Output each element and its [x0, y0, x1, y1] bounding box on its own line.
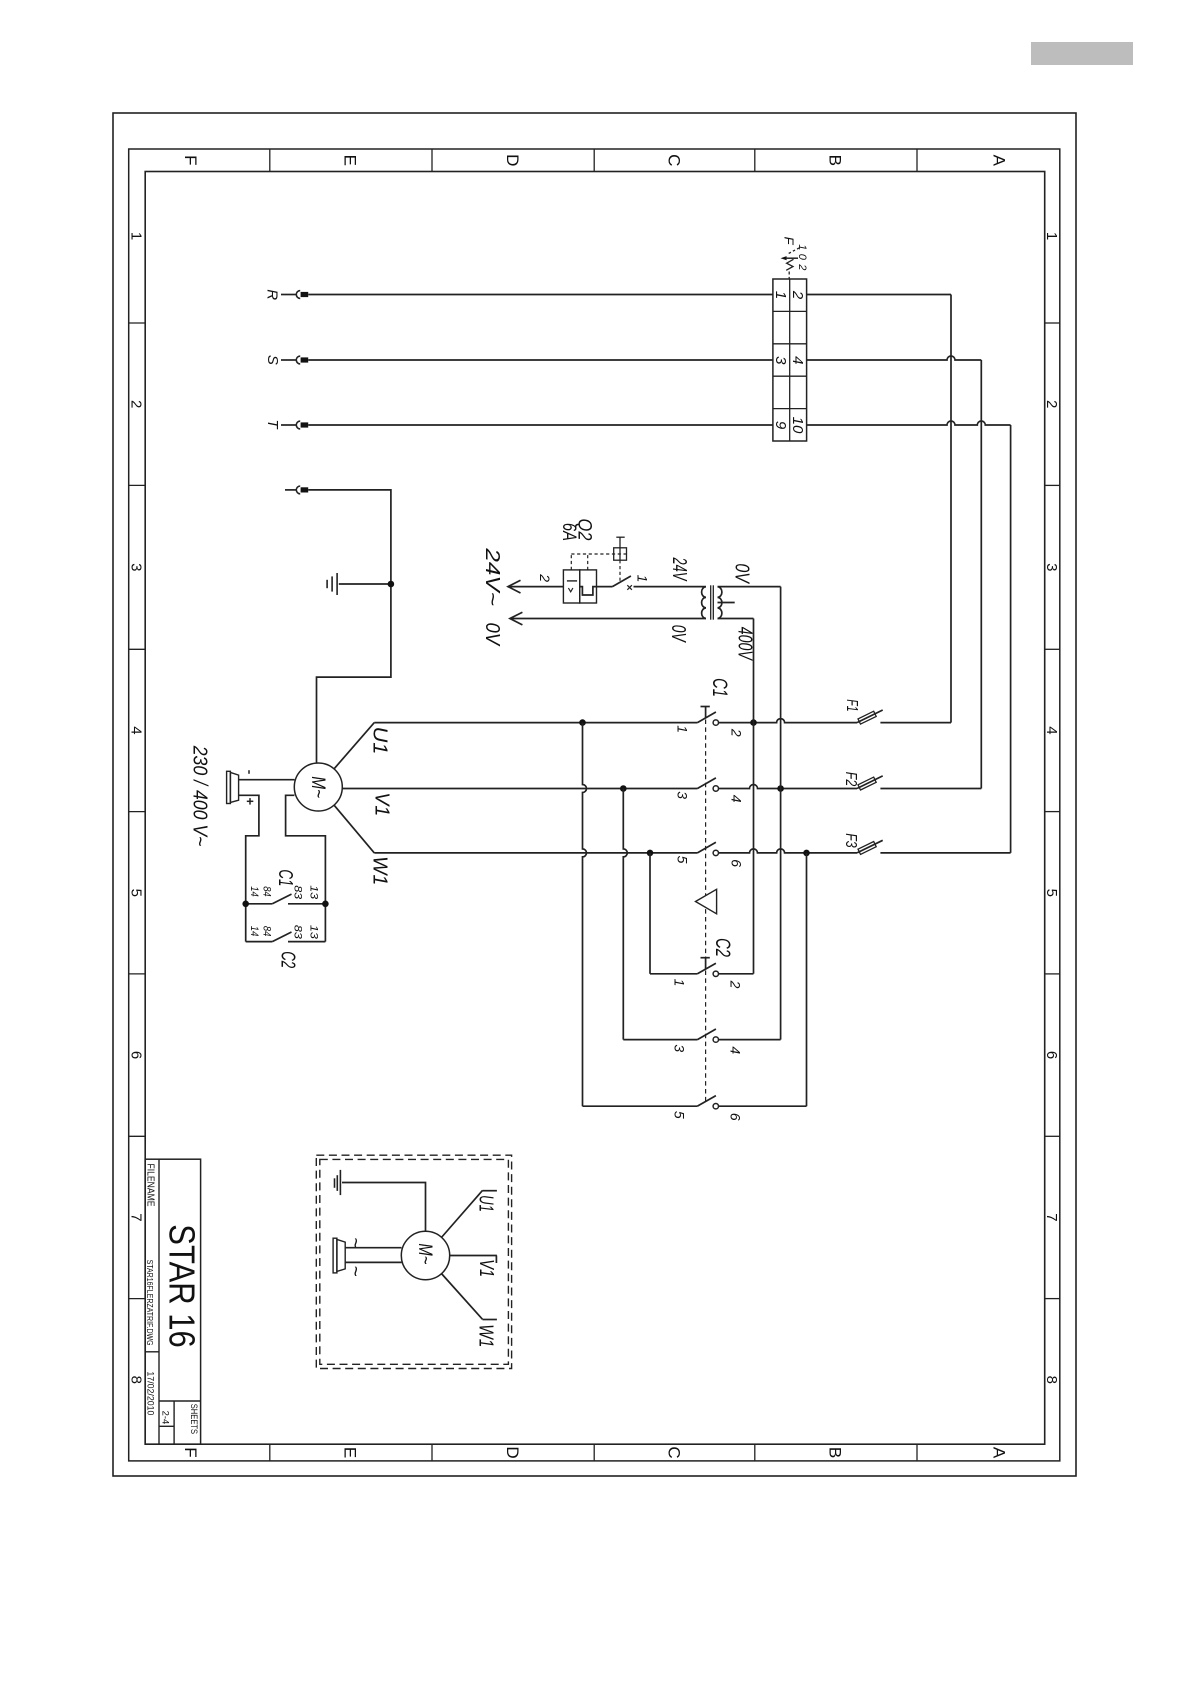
wire drop W1-row to C2 pole1 — [649, 853, 651, 974]
svg-text:6: 6 — [728, 1113, 744, 1121]
wire C1 pole2 to fuse F1 — [719, 719, 857, 723]
inset wire top phase — [345, 1247, 401, 1249]
svg-text:13: 13 — [308, 925, 320, 940]
svg-text:8: 8 — [1043, 1376, 1060, 1384]
title block frame — [145, 1159, 200, 1444]
Q2 test button square — [614, 548, 627, 560]
svg-text:5: 5 — [674, 856, 690, 864]
wire transformer 400V right — [718, 618, 754, 620]
wire C2 pole4 up corner — [719, 1039, 781, 1041]
wire plus to aux left rail — [239, 795, 259, 941]
wire U1 row to C1 pole 1 — [374, 722, 697, 724]
svg-text:FILENAME: FILENAME — [145, 1164, 156, 1207]
svg-text:14: 14 — [248, 886, 260, 897]
svg-text:D: D — [503, 1446, 522, 1458]
svg-text:F: F — [181, 1447, 200, 1457]
wire C2 pole2 up corner — [719, 973, 754, 975]
wire W1 drop to C2 pole 1 — [650, 973, 697, 975]
wire drop V1-row to C2 pole3 — [623, 789, 627, 1040]
svg-text:STAR 16: STAR 16 — [161, 1224, 202, 1348]
wire V1 row to C1 pole 3 — [342, 788, 697, 790]
svg-text:SHEETS: SHEETS — [188, 1404, 199, 1434]
svg-text:5: 5 — [1043, 889, 1060, 897]
svg-text:B: B — [826, 1447, 845, 1458]
svg-text:4: 4 — [728, 1046, 744, 1054]
svg-text:B: B — [826, 155, 845, 166]
svg-text:83: 83 — [292, 885, 304, 900]
transformer T1 windings — [702, 587, 706, 619]
svg-text:V1: V1 — [371, 792, 393, 816]
svg-text:~: ~ — [344, 1237, 365, 1248]
inset dashed box outer — [316, 1155, 511, 1368]
label plus — [247, 800, 254, 802]
wire S block to F2 drop — [807, 356, 982, 360]
svg-text:6A: 6A — [558, 523, 579, 541]
wire transformer 0V secondary right — [718, 586, 781, 588]
wire drop T-row to C2 pole5 return — [806, 853, 808, 1106]
contactor C2 pole 3-4 — [697, 1029, 716, 1040]
svg-text:84: 84 — [260, 926, 272, 937]
inset earth ground — [339, 1170, 341, 1195]
svg-text:2: 2 — [1043, 400, 1060, 408]
inset wire W1 — [441, 1274, 482, 1320]
wire F1 to drop — [880, 722, 951, 724]
wire motor U1 diagonal — [334, 723, 374, 769]
svg-text:U1: U1 — [474, 1195, 496, 1212]
wire drop U1-row to C2 pole5 — [583, 723, 587, 1107]
inset dashed box inner — [320, 1159, 509, 1364]
wire W1 row to C1 pole 5 — [374, 852, 697, 854]
fuse F3 — [857, 840, 883, 853]
single phase plug symbol — [227, 771, 231, 803]
svg-text:F: F — [181, 155, 200, 165]
wire Q2 to transformer 24V — [634, 586, 707, 588]
svg-text:3: 3 — [128, 563, 145, 571]
svg-text:8: 8 — [128, 1376, 145, 1384]
wire R block to F1 drop — [807, 294, 951, 296]
svg-text:C1: C1 — [274, 869, 296, 886]
svg-text:D: D — [503, 154, 522, 166]
svg-text:E: E — [341, 155, 360, 166]
contactor C1 pole 3-4 — [697, 778, 716, 789]
svg-text:U1: U1 — [369, 727, 391, 755]
svg-text:F: F — [782, 237, 797, 246]
svg-text:1: 1 — [796, 244, 808, 250]
node 400V drop junction — [750, 719, 757, 726]
svg-text:4: 4 — [1043, 726, 1060, 734]
svg-text:1: 1 — [671, 979, 687, 987]
svg-text:9: 9 — [772, 421, 789, 430]
wire motor to aux right rail — [286, 795, 326, 941]
svg-text:C: C — [664, 154, 683, 166]
wire C1 pole6 to fuse F3 — [719, 849, 857, 853]
connector X1-PE — [285, 489, 296, 491]
svg-text:C2: C2 — [711, 938, 735, 957]
svg-text:W1: W1 — [474, 1324, 496, 1347]
svg-text:17/02/2010: 17/02/2010 — [145, 1371, 156, 1415]
wire C2 pole6 up corner — [719, 1105, 807, 1107]
wire C1 pole4 to fuse F2 — [719, 785, 857, 789]
wire 24V~ arrow to Q2 — [508, 586, 563, 588]
svg-text:14: 14 — [248, 926, 260, 937]
svg-text:W1: W1 — [369, 856, 391, 885]
circuit breaker Q2 box — [563, 570, 579, 603]
svg-text:84: 84 — [260, 886, 272, 897]
grey header mark top-right — [1031, 42, 1133, 65]
svg-text:2: 2 — [537, 573, 553, 582]
connector X1-T — [281, 424, 296, 426]
contactor C2 pole 5-6 — [697, 1096, 716, 1107]
inset plug symbol — [333, 1238, 337, 1273]
svg-text:1: 1 — [772, 291, 789, 299]
inset wire U1 — [441, 1190, 482, 1237]
node V1-row junction — [620, 785, 627, 792]
C2 mechanical linkage dashed — [705, 971, 707, 1102]
svg-text:24V~: 24V~ — [481, 547, 503, 606]
contact x mark — [627, 585, 632, 590]
svg-text:~: ~ — [344, 1266, 365, 1277]
wire PE down to motor — [308, 490, 391, 763]
wire minus to motor — [239, 779, 295, 781]
wire F3 to drop — [880, 852, 1010, 854]
frame band rectangle — [129, 149, 1060, 1461]
svg-text:0V: 0V — [667, 625, 689, 643]
svg-text:3: 3 — [1043, 563, 1060, 571]
wire drop T to F3 — [1010, 425, 1012, 853]
svg-text:0V: 0V — [731, 563, 753, 584]
node 0V drop junction — [777, 785, 784, 792]
frame row ticks left — [129, 322, 146, 324]
svg-text:2-4: 2-4 — [160, 1411, 171, 1425]
svg-text:4: 4 — [128, 726, 145, 734]
inset wire bottom phase — [345, 1261, 401, 1263]
svg-text:1: 1 — [128, 232, 145, 240]
wire drop 400V to C2 pole1 — [753, 619, 755, 974]
connector X1-R — [281, 294, 296, 296]
Q2 switch blade — [612, 576, 631, 587]
svg-text:F2: F2 — [842, 772, 859, 787]
motor M1 circle — [294, 763, 342, 811]
frame column ticks bottom — [269, 1444, 271, 1461]
svg-text:7: 7 — [128, 1213, 145, 1221]
node aux right — [322, 901, 329, 908]
svg-text:0V: 0V — [481, 623, 503, 647]
outer sheet border — [113, 113, 1076, 1476]
wire T to terminal block — [308, 424, 773, 426]
svg-text:F1: F1 — [843, 699, 860, 712]
transformer center tap stub — [718, 602, 735, 604]
inset wire ground to motor — [342, 1183, 426, 1232]
node PE junction — [388, 581, 395, 588]
svg-text:24V: 24V — [668, 557, 690, 582]
contactor C2 pole 1-2 — [697, 963, 716, 974]
svg-text:10: 10 — [789, 417, 806, 434]
svg-text:3: 3 — [772, 356, 789, 365]
aux contact C1 13-14 83-84 row — [246, 903, 273, 905]
C1 mechanical linkage dashed — [705, 720, 707, 958]
svg-text:2: 2 — [729, 728, 745, 737]
inset wire V1 — [450, 1255, 497, 1257]
svg-text:83: 83 — [292, 925, 304, 940]
wire F2 to drop — [880, 788, 981, 790]
node T-row drop junction — [803, 850, 810, 857]
contactor C1 pole 1-2 — [697, 712, 716, 723]
svg-text:3: 3 — [674, 791, 690, 799]
wire T block to F3 drop — [807, 421, 1011, 425]
wire 0V arrow to transformer — [510, 618, 706, 620]
wire U1 drop to C2 pole 5 — [583, 1105, 698, 1107]
svg-text:1: 1 — [674, 725, 690, 733]
svg-text:4: 4 — [789, 356, 806, 364]
connector X1-S — [281, 359, 296, 361]
svg-text:C2: C2 — [277, 951, 299, 968]
svg-text:V1: V1 — [475, 1259, 497, 1277]
svg-text:S: S — [264, 355, 281, 365]
wire S to terminal block — [308, 359, 773, 361]
svg-text:2: 2 — [796, 263, 808, 270]
label minus — [248, 770, 250, 774]
svg-text:7: 7 — [1043, 1213, 1060, 1221]
svg-text:C1: C1 — [708, 678, 732, 697]
svg-text:6: 6 — [128, 1051, 145, 1059]
star symbol triangle — [696, 889, 717, 914]
aux contact C2 row — [246, 941, 273, 943]
frame row ticks right — [1045, 322, 1060, 324]
node aux left — [242, 901, 249, 908]
svg-text:1: 1 — [1043, 232, 1060, 240]
svg-text:2: 2 — [728, 980, 744, 989]
svg-text:13: 13 — [308, 885, 320, 900]
inner drawing frame — [145, 172, 1044, 1445]
contactor C1 pole 5-6 — [697, 842, 716, 853]
node W1-row junction — [647, 850, 654, 857]
fuse F2 — [857, 776, 883, 789]
svg-text:C: C — [664, 1446, 683, 1458]
svg-text:4: 4 — [729, 795, 745, 803]
svg-text:230 / 400 V~: 230 / 400 V~ — [189, 745, 211, 847]
svg-text:6: 6 — [1043, 1051, 1060, 1059]
svg-text:E: E — [341, 1447, 360, 1458]
wire drop S to F2 — [980, 360, 982, 789]
svg-text:M~: M~ — [307, 776, 328, 798]
wire drop 0V to C2 pole3 — [780, 587, 782, 1040]
svg-text:2: 2 — [128, 400, 145, 408]
svg-text:F3: F3 — [842, 833, 859, 848]
inset motor M2 circle — [401, 1231, 449, 1279]
svg-text:5: 5 — [128, 889, 145, 897]
svg-text:2: 2 — [789, 290, 806, 300]
svg-text:5: 5 — [671, 1111, 687, 1119]
svg-text:6: 6 — [729, 859, 745, 867]
svg-text:R: R — [264, 289, 281, 300]
Q2 linkage dashed — [570, 554, 572, 570]
svg-text:3: 3 — [671, 1044, 687, 1052]
wire R to terminal block — [308, 294, 773, 296]
wire motor W1 diagonal — [334, 805, 374, 853]
svg-text:A: A — [990, 1447, 1009, 1459]
wire drop R to F1 — [950, 295, 952, 723]
svg-text:400V: 400V — [733, 627, 755, 661]
node U1-row junction — [579, 719, 586, 726]
earth ground symbol — [339, 583, 391, 585]
terminal block X1 — [773, 279, 807, 441]
svg-text:0: 0 — [796, 254, 808, 261]
svg-text:M~: M~ — [414, 1243, 435, 1264]
Q2 magnetic coil dip in wire — [580, 587, 613, 595]
frame column ticks top — [269, 149, 271, 172]
fuse F1 — [857, 710, 883, 723]
svg-text:A: A — [990, 155, 1009, 167]
svg-text:1: 1 — [634, 575, 650, 583]
svg-text:STAR16FLERZATRIF.DWG: STAR16FLERZATRIF.DWG — [145, 1260, 154, 1346]
wire V1 drop to C2 pole 3 — [623, 1039, 697, 1041]
